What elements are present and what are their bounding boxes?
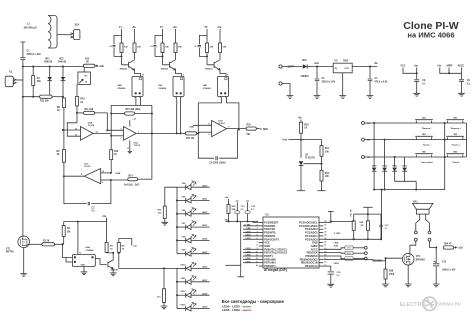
wire +5v down Т3 [219, 29, 221, 43]
svg-text:SB2: SB2 [453, 117, 457, 119]
wire R6b down [118, 251, 120, 254]
wire group1 to R10led [165, 187, 177, 206]
wire AVCC down [461, 68, 463, 80]
terminal +BATT [279, 65, 282, 68]
diode VD1 [47, 77, 52, 80]
svg-text:7: 7 [228, 126, 229, 128]
wire c13 top [236, 202, 238, 210]
ground R26 [382, 284, 389, 287]
svg-text:К_МК2: К_МК2 [260, 128, 268, 131]
connector spk pin 1a [414, 231, 417, 234]
svg-text:VT1: VT1 [6, 248, 11, 250]
wire C1 to bus [22, 60, 24, 67]
svg-text:6: 6 [209, 134, 210, 136]
wire top bus [23, 66, 83, 68]
pin 8 GND [259, 245, 263, 247]
wire vertical X1 bus [22, 67, 24, 97]
wire 4066-2 pinA down [176, 97, 178, 133]
junction C9 [416, 72, 418, 74]
wire +5v entry [106, 218, 108, 222]
wire net LED7 [243, 262, 259, 264]
wire emitter to ctl Т2 [176, 70, 182, 76]
junction C15-R24 [435, 247, 437, 249]
wire C13 leg down [240, 221, 242, 276]
wire R27 down [353, 230, 355, 239]
U1D feedback box [198, 103, 237, 158]
watermark electroshema.ru [400, 302, 462, 308]
wire cap bottom Т1 [114, 48, 122, 56]
svg-text:LED9: LED9 [334, 263, 340, 265]
junction [49, 96, 51, 98]
wire Uref stub [289, 139, 302, 141]
wire gnd stub left [225, 264, 240, 266]
junction [163, 267, 165, 269]
junction reset [367, 213, 369, 215]
junction [247, 220, 249, 222]
wire box left top [110, 105, 112, 113]
wire Т1 down [121, 29, 123, 43]
wire anode VD10 [177, 267, 186, 269]
pin 6 PD4/XCK/T0 [259, 238, 263, 240]
net label MOSI [345, 257, 353, 260]
svg-text:на ИМС 4066: на ИМС 4066 [407, 31, 454, 40]
wire base Т3 [206, 53, 208, 65]
svg-text:R20: R20 [247, 124, 252, 126]
junction [373, 189, 375, 191]
junction [151, 113, 153, 115]
svg-text:+5в: +5в [173, 26, 178, 29]
wire to R26 [385, 258, 387, 269]
wire anode VD9 [177, 253, 186, 255]
analog switch U4B CD4066 [132, 76, 143, 96]
svg-text:U4B: U4B [117, 84, 122, 87]
wire VD15 top [384, 140, 386, 168]
svg-text:10К: 10К [165, 46, 169, 48]
svg-text:IRF740: IRF740 [6, 251, 14, 254]
junction U1D out [238, 129, 240, 131]
capacitor Т3 [198, 46, 201, 47]
pushbutton SB5 [415, 154, 433, 157]
svg-text:R14: R14 [129, 175, 134, 178]
svg-text:2N5551: 2N5551 [120, 69, 128, 71]
wire mcu pin to SCK [323, 248, 345, 250]
connector spk pin 1b [414, 238, 417, 241]
svg-text:10К: 10К [178, 46, 182, 48]
svg-text:R18: R18 [304, 124, 309, 126]
wire bar down [367, 207, 369, 221]
wire Т3 down [206, 29, 208, 43]
ground group1 [161, 222, 168, 225]
wire MCU to buttons bus [323, 238, 381, 240]
wire mcu pin to MOSI [323, 256, 345, 259]
svg-text:LED0: LED0 [246, 231, 251, 233]
wire cathode VD11 [191, 281, 210, 283]
resistor R1 [32, 76, 35, 86]
pin 13 PD7/AIN1 [259, 262, 263, 264]
wire to VT2 drain [410, 241, 416, 254]
ground group2 [161, 306, 168, 309]
regulator U3 7805 [333, 63, 352, 73]
svg-text:12: 12 [75, 135, 77, 137]
resistor R28 [366, 221, 369, 231]
pushbutton SB2 [446, 120, 464, 123]
wire speaker right lead [426, 214, 430, 231]
pin 5 PD3/INT1 [259, 235, 263, 237]
wire U1A box top [111, 104, 152, 106]
svg-text:300-400 µH: 300-400 µH [24, 27, 37, 30]
svg-text:ATmega8 (DIP): ATmega8 (DIP) [264, 268, 287, 272]
resistor R4 [62, 226, 65, 237]
pushbutton SB1 [415, 120, 433, 123]
junction bus-VD1 [49, 66, 51, 68]
wire net LED1 [243, 235, 259, 237]
wire button row 2 [365, 139, 467, 141]
wire R10led gnd [164, 218, 166, 222]
wire U1C output [64, 175, 84, 177]
svg-text:U4D: U4D [203, 84, 208, 87]
svg-text:R26: R26 [389, 271, 394, 273]
svg-text:TL431ТО: TL431ТО [305, 157, 315, 160]
analog switch U4D CD4066 [218, 76, 229, 96]
svg-text:2N5551: 2N5551 [111, 270, 119, 272]
ground Q3 [110, 273, 117, 276]
svg-text:VD10: VD10 [180, 264, 186, 266]
resistor coll Т2 [174, 43, 177, 53]
wire U3 out [352, 66, 377, 68]
pin 15 PB1/OC1A [319, 265, 323, 267]
ground VT2 [405, 284, 412, 287]
resistor R21 [320, 146, 323, 157]
svg-text:ВА1: ВА1 [413, 201, 418, 204]
junction row 2 right [444, 139, 446, 141]
svg-text:+5в: +5в [414, 66, 419, 68]
svg-text:7: 7 [257, 241, 258, 243]
wire sound stub [383, 260, 386, 262]
wire Q3 to LED group2 [119, 253, 164, 269]
svg-text:LED4: LED4 [202, 238, 208, 241]
wire R23 gnd [163, 302, 165, 306]
wire TL431 to gnd [300, 165, 302, 190]
wire base Т1 [121, 53, 123, 65]
wire to Q3 collector [107, 253, 114, 260]
wire collector Т1 [134, 53, 136, 60]
pin 20 AVCC [319, 248, 323, 250]
wire R5b down [106, 251, 108, 254]
capacitor C14 [245, 211, 250, 214]
junction [236, 220, 238, 222]
capacitor C5 [315, 79, 320, 81]
wire cathode VD4 [191, 186, 210, 188]
wire Т2 down [162, 29, 164, 43]
wire R4 to +5v [64, 222, 107, 226]
svg-text:25: 25 [324, 231, 326, 233]
svg-text:56К: 56К [232, 209, 236, 211]
svg-text:+5в: +5в [225, 197, 229, 199]
pin 4 PD2/INT0 [259, 232, 263, 234]
svg-text:VD13: VD13 [180, 305, 186, 307]
junction TL431 ref [321, 163, 323, 165]
svg-text:U1C: U1C [84, 163, 89, 165]
wire U1D input 5 [193, 124, 212, 126]
wire cathode VD8 [191, 239, 210, 241]
wire R2 to node [55, 243, 63, 245]
wire U1D input 6 [198, 131, 211, 133]
resistor R5b [105, 243, 108, 253]
junction C7 [369, 66, 371, 68]
junction [112, 252, 114, 254]
wire to C7 [369, 67, 371, 79]
ground C6 [458, 93, 465, 96]
connector X1A plug pins [71, 33, 74, 38]
wire U1C input 9 [101, 179, 111, 181]
wire anode VD6 [177, 213, 186, 215]
svg-text:+5в: +5в [133, 245, 137, 247]
inductor L1 (search coil) [48, 16, 57, 49]
svg-text:VD3: VD3 [302, 60, 307, 62]
wire R4 bottom [63, 236, 65, 244]
svg-text:LED6: LED6 [246, 258, 251, 260]
op-amp U1D [212, 121, 227, 137]
junction [110, 113, 112, 115]
wire cap bottom Т2 [155, 48, 163, 56]
capacitor C12 [379, 225, 382, 226]
ground U4A [81, 272, 88, 275]
svg-text:10К: 10К [325, 176, 330, 178]
pin 2 PD0/RXD [259, 225, 263, 227]
wire +5v down a [416, 68, 418, 80]
wire cap reset down [380, 227, 382, 239]
svg-text:LED1: LED1 [246, 235, 251, 237]
svg-text:GND: GND [334, 246, 339, 248]
svg-text:1N4148: 1N4148 [44, 61, 53, 64]
junction [176, 281, 178, 283]
pin 22 GND [319, 242, 323, 244]
svg-text:LED6: LED6 [202, 267, 208, 269]
wire +5v to R5b [106, 222, 108, 243]
wire box right top [151, 105, 153, 113]
junction row 1 right [444, 122, 446, 124]
wire speaker left lead [416, 214, 420, 231]
svg-text:ELECTRO: ELECTRO [400, 302, 426, 308]
wire U4A out to Q3 [95, 258, 106, 264]
svg-text:Uref: Uref [282, 139, 287, 142]
wire C9 gnd [416, 82, 418, 94]
svg-text:10К: 10К [325, 151, 330, 153]
wire VD14 top [373, 123, 375, 167]
terminal button row 3 [362, 156, 365, 159]
resistor R14 [128, 178, 138, 181]
junction R4 [62, 243, 64, 245]
wire VD16-17 bus [395, 180, 417, 182]
wire r27 top link [354, 213, 368, 215]
wire VD1 to R13 line [49, 80, 51, 96]
wire net К_МК2 [243, 225, 259, 227]
pin 14 PB0/ICP1 [259, 265, 263, 267]
wire anode VD7 [177, 226, 186, 228]
junction [415, 189, 417, 191]
ISP pin MOSI [364, 257, 367, 260]
pin 25 PC2/ADC2 [319, 232, 323, 234]
wire VD17 top [404, 157, 406, 167]
svg-text:21: 21 [324, 245, 326, 247]
resistor R9 [63, 98, 66, 108]
switch pins U4D [220, 92, 222, 94]
wire bus to R1 [32, 67, 34, 76]
wire C15 gnd [435, 266, 437, 284]
junction VD2-R13 [62, 96, 64, 98]
junction [176, 294, 178, 296]
wire anode VD8 [177, 239, 186, 241]
wire U4A in2 join [65, 258, 67, 263]
svg-text:2к4 (2к2 - 2к7): 2к4 (2к2 - 2к7) [124, 184, 140, 187]
terminal button row 1 [362, 122, 365, 125]
pin 11 PD5/T1 [259, 255, 263, 257]
op-amp U1B [81, 127, 94, 141]
svg-text:R12: R12 [85, 58, 90, 60]
junction U1C out [63, 175, 65, 177]
wire +5v down Т1 [134, 29, 136, 43]
wire collector Т2 [175, 53, 177, 60]
wire VT1 to R2 [27, 243, 42, 245]
wire anode VD4 [177, 186, 186, 188]
diode VD17 [402, 168, 407, 172]
svg-text:LED5: LED5 [246, 255, 251, 257]
capacitor C7 [368, 79, 373, 81]
wire R8 down [63, 162, 65, 176]
AREF bar [328, 211, 334, 213]
junction bus-R1 [32, 66, 34, 68]
resistor R10led [163, 206, 166, 218]
terminal button row 2 [362, 138, 365, 141]
svg-text:SB1: SB1 [422, 117, 426, 119]
junction [118, 252, 120, 254]
svg-text:VCC: VCC [401, 66, 406, 68]
junction VD15 [384, 139, 386, 141]
wire R10 down [76, 106, 78, 123]
wire right column [466, 123, 468, 157]
wire net LED2 [243, 238, 259, 240]
wire R15 right [134, 113, 152, 115]
svg-text:26: 26 [324, 228, 326, 230]
junction LINE node [110, 172, 112, 174]
svg-text:8: 8 [257, 245, 258, 247]
wire net LED3 [243, 248, 259, 250]
junction R26 [385, 257, 387, 259]
svg-text:7805: 7805 [343, 61, 349, 63]
svg-text:Все светодиоды - сверхяркие: Все светодиоды - сверхяркие [222, 299, 285, 304]
svg-text:+5в: +5в [102, 216, 107, 218]
ground C15 [433, 284, 440, 287]
resistor R13 [40, 95, 53, 98]
svg-text:14: 14 [256, 264, 258, 267]
junction VD14 [373, 122, 375, 124]
svg-text:1М: 1М [361, 225, 364, 227]
wire U1A vminus [129, 140, 131, 151]
wire to R18 [300, 120, 302, 123]
wire button row 3 [365, 156, 467, 158]
ISP pin MISO [364, 252, 367, 255]
wire to C15 [435, 248, 437, 264]
wire to C16 [323, 266, 331, 271]
wire sound join [385, 258, 387, 261]
ground C5 [314, 96, 321, 99]
resistor R25 [227, 205, 230, 214]
junction R9 line input [62, 129, 64, 131]
ground R22 [317, 190, 325, 192]
wire mini bus down [415, 181, 417, 189]
wire 4066-3 pinA [198, 97, 221, 103]
svg-text:LED3: LED3 [202, 225, 208, 227]
svg-text:CD4066: CD4066 [203, 87, 212, 90]
wire cathode VD7 [191, 226, 210, 228]
svg-text:R24 47: R24 47 [444, 242, 452, 245]
wire anode VD5 [177, 200, 186, 202]
pin 9 PB6/XTAL1/TOSC1 [259, 248, 263, 250]
wire R13 to node [52, 96, 63, 98]
svg-text:2: 2 [121, 137, 122, 139]
capacitor Т1 [113, 46, 116, 47]
wire VCC join [403, 68, 417, 74]
svg-text:13: 13 [79, 253, 81, 255]
svg-text:3300,0 x 16V: 3300,0 x 16V [27, 53, 42, 56]
diode VD3 1N5819 [303, 64, 307, 68]
ground -BATT [287, 96, 294, 99]
pin 19 PB5/SCK [319, 252, 323, 254]
transistor Q Т2 2N5551 [163, 60, 176, 70]
wire U1C input 10 [101, 172, 111, 174]
wire anode VD11 [177, 281, 186, 283]
svg-text:LED2: LED2 [202, 212, 208, 214]
wire emitter to ctl Т3 [220, 70, 226, 76]
pin 21 AREF [319, 245, 323, 247]
svg-text:AVCC: AVCC [458, 65, 465, 68]
connector X1A body [74, 30, 80, 40]
wire R22 to gnd [321, 181, 323, 191]
wire R16 to U1C [110, 160, 112, 173]
svg-text:'Настройка': 'Настройка' [421, 161, 434, 164]
svg-text:R16: R16 [114, 151, 119, 153]
+5v bar reset [363, 206, 372, 208]
svg-text:10К: 10К [124, 46, 128, 48]
svg-text:R22: R22 [325, 173, 330, 175]
svg-text:К_МК2: К_МК2 [334, 233, 341, 235]
wire X1 to bus [16, 79, 23, 81]
svg-text:VD15: VD15 [382, 165, 387, 167]
wire 4066-2 pinB down [180, 97, 182, 133]
pin 7 VCC [259, 242, 263, 244]
wire R9 to R8 [63, 108, 65, 150]
svg-text:10К: 10К [223, 46, 227, 48]
svg-text:1: 1 [74, 255, 75, 257]
svg-text:10К: 10К [210, 46, 214, 48]
wire VD16 bottom [394, 171, 396, 181]
svg-text:IRF640A: IRF640A [416, 258, 426, 261]
resistor base Т2 [161, 43, 164, 53]
junction U4A ctl [77, 221, 79, 223]
wire SCK to ISP [353, 247, 364, 249]
resistor R16 [110, 150, 113, 160]
diode VD2 [61, 77, 66, 80]
wire R14 to right edge [138, 178, 152, 180]
svg-text:LED8: LED8 [202, 293, 208, 295]
+12v arrow right [454, 247, 457, 249]
junction [162, 55, 164, 57]
transistor Q Т1 2N5551 [122, 60, 135, 70]
pin 17 PB3/MOSI/OC2 [319, 258, 323, 260]
svg-text:U4A: U4A [86, 246, 91, 249]
resistor R10 [76, 96, 79, 106]
junction [206, 55, 208, 57]
